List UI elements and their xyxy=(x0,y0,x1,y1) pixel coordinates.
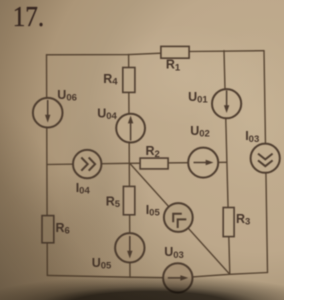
current source I03 xyxy=(251,144,280,173)
wire diagonal xyxy=(130,163,230,274)
resistor R6 xyxy=(42,216,54,243)
wire middle horizontal xyxy=(47,162,227,164)
source I05 xyxy=(164,203,193,232)
wire center branch xyxy=(129,55,130,278)
voltage source U02 xyxy=(188,148,218,178)
voltage source U04 xyxy=(116,114,145,143)
wire bottom xyxy=(47,273,267,278)
resistor R2 xyxy=(140,158,168,169)
resistor R5 xyxy=(123,186,134,214)
voltage source U01 xyxy=(212,89,241,118)
resistor R3 xyxy=(223,208,234,237)
resistor R1 xyxy=(161,46,189,58)
wire top xyxy=(47,51,265,55)
wire right xyxy=(264,51,268,273)
current source I04 xyxy=(73,150,101,178)
voltage source U06 xyxy=(33,98,63,128)
wire left xyxy=(46,55,49,276)
wire branch U01-R3 xyxy=(224,51,230,275)
voltage source U03 xyxy=(163,263,192,292)
resistor R4 xyxy=(123,68,135,93)
voltage source U05 xyxy=(115,233,144,262)
